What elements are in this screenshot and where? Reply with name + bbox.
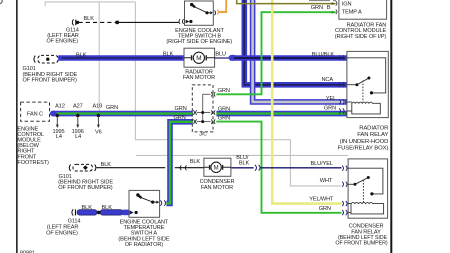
svg-text:(RIGHT SIDE OF I/P): (RIGHT SIDE OF I/P) [335,34,387,40]
J/C connectors right [211,92,215,124]
wire BLU/BLK thick to radiator fan relay [230,55,347,61]
svg-text:FAN RELAY: FAN RELAY [357,132,388,138]
wire BLK thick switch A to G114 [77,210,129,215]
svg-text:NCA: NCA [321,77,333,83]
wire orange from switch B up [218,0,226,12]
svg-text:GRN: GRN [218,115,230,121]
svg-text:OF RADIATOR): OF RADIATOR) [125,242,164,248]
wire BLK from G101 to condenser fan motor [97,167,204,169]
connector blob on BLU wire [228,55,236,61]
svg-text:M: M [196,55,201,62]
node junction dot [115,21,119,25]
J/C internal bus [197,94,211,121]
wire GRN thick from coolant switch A to J/C [166,122,192,204]
svg-text:TEMP A: TEMP A [342,10,362,16]
gray box line A (top-left corner stub) [45,2,135,6]
wire vertical V1 BLU/BLK to NCA [244,0,346,85]
wire GRN thick from ECM [53,111,193,117]
svg-text:BLK: BLK [239,160,250,166]
left page border [16,0,18,253]
svg-text:GRN: GRN [106,105,118,111]
wire BLK dashed from G114 top [79,21,117,23]
relay K1 box: radiator fan relay [347,51,388,117]
svg-text:FAN MOTOR: FAN MOTOR [201,185,233,191]
wire GRN thin to condenser fan relay [216,122,341,213]
svg-text:OF FRONT BUMPER): OF FRONT BUMPER) [335,241,388,247]
svg-text:GRN: GRN [174,115,186,121]
wire BLK thick highlighted G101 to radiator fan motor [59,55,185,61]
svg-text:V6: V6 [95,129,102,135]
gray line C y155 [136,154,348,156]
svg-text:FOOTREST): FOOTREST) [17,160,49,166]
svg-text:CONTROL MODULE: CONTROL MODULE [335,28,387,34]
svg-text:(IN UNDER-HOOD: (IN UNDER-HOOD [340,139,389,145]
module connectors [336,1,337,14]
svg-text:GRN: GRN [218,88,230,94]
svg-text:IGN: IGN [342,1,352,7]
svg-text:BLK: BLK [82,205,93,211]
gray other-circuit line to WHT [135,2,341,186]
svg-text:GRN: GRN [311,5,323,11]
svg-text:BLU: BLU [215,51,226,57]
svg-text:BLK: BLK [102,205,113,211]
wire YEL thin vertical [272,0,341,204]
svg-text:L4: L4 [75,134,81,140]
motor M2 box: condenser fan motor [204,158,231,176]
wire vertical V2 to YEL pin [253,0,347,102]
svg-text:GRN: GRN [175,106,187,112]
svg-text:(RIGHT SIDE OF ENGINE): (RIGHT SIDE OF ENGINE) [166,39,232,45]
svg-text:BLK: BLK [76,52,87,58]
svg-text:M: M [214,165,219,171]
wire BLK solid to switch B [117,21,178,23]
gray box line B vertical x99 [98,2,100,111]
ECM FAN C dashed box [21,102,50,121]
connector at switch B left pin [179,19,184,24]
svg-text:A19: A19 [92,104,102,110]
ground G101 bottom symbol [69,164,96,171]
junction connector J/C dashed box [192,85,213,132]
svg-text:FAN MOTOR: FAN MOTOR [183,75,215,81]
svg-text:YEL: YEL [326,96,336,102]
wire GRN thick J/C to radiator fan relay [216,111,346,117]
svg-text:BLK: BLK [84,16,95,22]
svg-text:FAN C: FAN C [27,111,43,117]
switch S-B box: engine coolant temp switch B [185,1,214,25]
wire BLU/YEL from condenser fan motor to relay [231,167,254,169]
svg-text:GRN: GRN [324,105,336,111]
ground G114 top symbol [72,19,76,25]
wire arrowheads at module pins [332,2,335,5]
svg-text:RADIATOR: RADIATOR [359,126,388,132]
wire BLU thin from motor [215,57,229,59]
svg-text:BLU/YEL: BLU/YEL [311,161,333,167]
svg-text:GRN: GRN [218,106,230,112]
connector at switch B right pin [214,10,215,15]
svg-text:OF ENGINE): OF ENGINE) [46,230,78,236]
relay K2 coil [351,202,384,213]
cut label remnants above IGN wire [309,0,330,1]
ground G114 bottom symbol [72,209,76,215]
svg-text:BLK: BLK [163,52,174,58]
J/C connectors left [193,110,196,124]
wire GRN thin to temp A [216,12,335,94]
connector on BLK before condenser motor [180,165,186,170]
connector on BLU/YEL wire [255,165,260,171]
motor M1 box: radiator fan motor [184,48,215,67]
corner mark top-left [0,0,2,4]
svg-text:OF FRONT BUMPER): OF FRONT BUMPER) [58,185,112,191]
wire olive to IGN [237,0,336,4]
switch B contacts [186,3,213,23]
ground G101 top symbol [34,55,58,63]
svg-text:OF FRONT BUMPER): OF FRONT BUMPER) [23,78,77,84]
svg-text:A12: A12 [55,103,65,109]
svg-text:BLU/BLK: BLU/BLK [312,52,335,58]
svg-text:WHT: WHT [320,178,333,184]
svg-text:OF ENGINE): OF ENGINE) [46,38,78,44]
svg-text:L4: L4 [56,134,62,140]
connector at switch A right pin [160,200,165,205]
relay K2 connectors [342,166,347,216]
svg-text:FUSE/RELAY BOX): FUSE/RELAY BOX) [338,145,389,151]
connector oval at FAN C [50,111,57,117]
relay K1 coil [352,102,381,114]
switch S-A box: engine coolant temperature switch A [129,190,160,217]
svg-text:J/C: J/C [198,132,207,138]
svg-text:YEL/WHT: YEL/WHT [309,197,334,203]
svg-text:BLK: BLK [101,162,112,168]
svg-text:B: B [327,5,331,11]
ECM pin ticks A12 A27 A19 [56,114,101,128]
module U1 box: radiator fan control module [339,0,387,19]
relay K1 connectors [339,55,344,113]
svg-text:BLK: BLK [190,159,201,165]
relay K2 box: condenser fan relay [348,159,388,218]
svg-text:GRN: GRN [319,206,331,212]
right page border [390,0,392,253]
svg-text:A27: A27 [73,103,83,109]
